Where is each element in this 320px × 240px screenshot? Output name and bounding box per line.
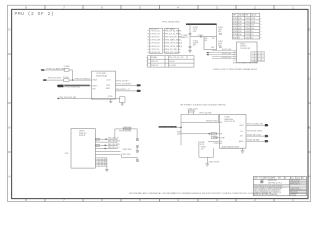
net arrow PP3V3_S5 input <box>41 69 45 71</box>
svg-text:PMU_RST_SMC_L: PMU_RST_SMC_L <box>165 52 180 54</box>
capacitor C7814 <box>193 41 198 47</box>
capacitor C7841 <box>212 137 218 139</box>
svg-text:4 GPIO4_WK: 4 GPIO4_WK <box>150 40 161 42</box>
capacitor C7817 <box>218 41 223 47</box>
net arrow BOOST_PG <box>206 54 209 56</box>
svg-text:BOOST_EN: BOOST_EN <box>222 53 232 55</box>
IC U7820 backlight driver <box>237 42 258 62</box>
svg-text:PP1V8_S0_PMU: PP1V8_S0_PMU <box>119 130 132 132</box>
wire FB pin <box>181 133 219 135</box>
svg-text:PP5V_S3_PMU_SW: PP5V_S3_PMU_SW <box>247 124 263 126</box>
svg-text:27K: 27K <box>201 149 205 151</box>
svg-text:SS: SS <box>220 141 222 143</box>
svg-text:6 GPIO6_B1: 6 GPIO6_B1 <box>150 46 160 48</box>
svg-text:A: A <box>8 175 10 179</box>
U7820 pin grid <box>251 52 265 62</box>
title block name text <box>268 179 282 184</box>
svg-text:REF: REF <box>233 15 236 17</box>
svg-text:S4: S4 <box>186 57 188 59</box>
junction dot row3 <box>105 145 107 146</box>
svg-text:4K7: 4K7 <box>239 28 242 30</box>
U7840 label <box>225 117 235 123</box>
U7700 pin names <box>92 79 110 91</box>
svg-text:PLACE CLOSE TO U7820 FOR BEST: PLACE CLOSE TO U7820 FOR BEST THERMAL RE… <box>213 68 257 71</box>
svg-text:AGND: AGND <box>239 140 244 143</box>
wire to boost input <box>190 36 204 38</box>
net name PMUVDDIO dark <box>64 85 90 87</box>
svg-text:BOOST_FB: BOOST_FB <box>222 57 231 59</box>
svg-text:B: B <box>308 126 310 130</box>
U7700 label <box>96 73 107 77</box>
svg-text:LDO2: LDO2 <box>106 85 110 87</box>
svg-text:CHECKED EE: CHECKED EE <box>290 182 299 184</box>
junction on FB wire <box>209 133 210 134</box>
svg-text:TLE WLCSP: TLE WLCSP <box>240 48 251 50</box>
wire SPI row6 long <box>95 154 120 156</box>
capacitor C7816 <box>218 27 223 33</box>
vertical tp bus <box>136 148 138 151</box>
title block header text <box>254 178 304 180</box>
svg-text:REF: REF <box>245 15 248 17</box>
table row wires between columns <box>147 31 180 53</box>
wire AGND out <box>246 140 265 142</box>
svg-text:NRST: NRST <box>106 88 110 90</box>
resistor R7821 <box>96 144 99 146</box>
svg-text:82.5K: 82.5K <box>200 144 205 146</box>
wire rail to boost top <box>216 24 218 36</box>
wire from flag <box>176 126 182 128</box>
net dot left <box>57 98 59 100</box>
net arrow BOOST_EN <box>206 52 209 54</box>
svg-text:C: C <box>8 77 11 81</box>
svg-text:PMU_GPIO5_SMC_A: PMU_GPIO5_SMC_A <box>165 42 182 45</box>
connector J7800 pin-name table right column <box>165 28 179 53</box>
svg-text:S0 ONLY: S0 ONLY <box>169 65 177 67</box>
wire vertical cap bus <box>189 24 191 50</box>
wire LDO2 out <box>115 84 136 86</box>
junction dot row4 <box>105 148 107 149</box>
svg-text:16V: 16V <box>193 45 197 47</box>
power rail wire (thick) <box>186 23 217 25</box>
wire NRST out <box>115 90 136 92</box>
svg-text:4K7: 4K7 <box>239 25 242 27</box>
svg-text:PM_PCIE_RST_PMU: PM_PCIE_RST_PMU <box>165 37 182 39</box>
svg-text:PMU_INT_SMC_L: PMU_INT_SMC_L <box>165 49 179 51</box>
svg-text:5 GPIO5_A1: 5 GPIO5_A1 <box>150 42 160 45</box>
net arrow VOUT <box>265 124 269 126</box>
svg-text:R7803: R7803 <box>233 25 238 27</box>
wire SPI row4 <box>95 148 117 150</box>
resistor R7810 label <box>177 131 182 135</box>
svg-text:2: 2 <box>254 5 256 9</box>
wire comp pin <box>213 137 219 139</box>
ground feedback <box>205 164 209 166</box>
ground below cap bus <box>188 51 192 53</box>
svg-text:SIZE: SIZE <box>254 178 257 180</box>
svg-text:PMU_SPI_CLK: PMU_SPI_CLK <box>108 138 120 140</box>
svg-text:ROM IF: ROM IF <box>79 135 86 137</box>
junction <box>72 79 73 80</box>
svg-text:3 GPIO3_PC: 3 GPIO3_PC <box>150 37 161 39</box>
inductor L7840 <box>188 110 194 112</box>
svg-text:051-9201: 051-9201 <box>290 194 296 196</box>
wire SPI row3 <box>95 144 117 146</box>
svg-text:PP3V3_S3_PMUVDD: PP3V3_S3_PMUVDD <box>75 78 91 80</box>
svg-text:6.3V: 6.3V <box>218 31 222 33</box>
svg-text:PP3V3_S3_PMU: PP3V3_S3_PMU <box>48 78 62 80</box>
svg-text:SW: SW <box>212 38 215 40</box>
svg-text:GND: GND <box>211 47 215 49</box>
border frame <box>8 5 311 201</box>
bundle bus to ground <box>106 158 108 170</box>
resistor R7811 <box>211 133 217 135</box>
wire <box>44 69 64 71</box>
svg-text:VDDIO: VDDIO <box>92 86 98 88</box>
svg-text:R7827 100K: R7827 100K <box>122 154 132 156</box>
svg-text:SIGNAL: SIGNAL <box>151 56 157 59</box>
net arrow AGND <box>265 140 269 142</box>
svg-text:PMU_SPI_MOSI: PMU_SPI_MOSI <box>108 141 121 143</box>
supervisor table left arrows <box>146 57 148 65</box>
svg-text:PMU_VDDCORE_SNS: PMU_VDDCORE_SNS <box>60 97 77 99</box>
svg-text:PP5V_S0SW_PMU: PP5V_S0SW_PMU <box>162 21 180 23</box>
svg-text:C7806: C7806 <box>245 34 250 36</box>
svg-text:100: 100 <box>239 34 242 36</box>
svg-text:BUCK 5V S3: BUCK 5V S3 <box>225 121 235 123</box>
DNP table text <box>233 14 256 40</box>
svg-text:9201: 9201 <box>297 178 301 180</box>
svg-text:0: 0 <box>239 37 240 39</box>
wire SPI row1 <box>95 138 117 140</box>
wire SW <box>246 135 265 137</box>
tick to U7700 <box>92 97 94 100</box>
wire AGND run <box>221 148 243 151</box>
bottom loop wire <box>122 155 138 160</box>
U7820 left pin numbers <box>234 51 236 62</box>
supervisor signal table <box>148 56 195 67</box>
svg-text:SHEET 9: SHEET 9 <box>181 37 188 39</box>
svg-text:VDDA: VDDA <box>92 79 97 82</box>
ROM pin bundle <box>95 158 107 166</box>
junction <box>180 127 181 128</box>
svg-text:C7802: C7802 <box>245 21 250 23</box>
wire corner to VIN <box>218 114 219 122</box>
svg-text:SPI0: SPI0 <box>65 153 69 155</box>
wire SPI row2 <box>95 141 117 143</box>
svg-text:C7842 22PF: C7842 22PF <box>213 143 222 145</box>
LDO U7700 <box>92 71 116 99</box>
wire <box>46 79 63 81</box>
table pin labels <box>150 28 183 54</box>
svg-text:C7805: C7805 <box>245 31 250 33</box>
U7820 label <box>240 43 251 49</box>
svg-text:PMU_SPI_CS_L: PMU_SPI_CS_L <box>108 147 120 149</box>
svg-text:PMU_GPIO6_SMC_B: PMU_GPIO6_SMC_B <box>165 46 182 48</box>
svg-text:2 GPIO2_S3: 2 GPIO2_S3 <box>150 33 160 35</box>
wire SPI row5 long <box>95 151 120 153</box>
svg-text:A1: A1 <box>234 51 236 54</box>
svg-text:4: 4 <box>177 5 179 9</box>
svg-text:PP5V7_LCDBKLT_SW_CONN: PP5V7_LCDBKLT_SW_CONN <box>233 62 258 64</box>
svg-text:A: A <box>308 175 310 179</box>
svg-text:VALUE: VALUE <box>239 14 244 17</box>
wire into U7700 <box>64 85 92 87</box>
svg-text:051: 051 <box>291 178 294 180</box>
testpoint TP7803 <box>136 150 138 152</box>
wire to U7700 VDDA <box>69 79 92 81</box>
svg-text:C7803: C7803 <box>245 25 250 27</box>
svg-text:R7802: R7802 <box>233 21 238 23</box>
svg-text:PP3V3_S0SW_MLB: PP3V3_S0SW_MLB <box>65 87 81 89</box>
svg-text:FL7800: FL7800 <box>64 66 70 68</box>
inductor leads <box>189 112 194 114</box>
svg-text:R7843: R7843 <box>201 147 206 149</box>
svg-text:8: 8 <box>25 5 27 9</box>
svg-text:PROPRIETARY AND CONFIDENTIAL.: PROPRIETARY AND CONFIDENTIAL. THE INFORM… <box>129 192 271 195</box>
svg-text:PM_SLP_S4_L PU: PM_SLP_S4_L PU <box>169 57 184 59</box>
svg-text:VALUE: VALUE <box>251 14 256 17</box>
testpoint TP7802 <box>136 145 138 147</box>
junction dot row1 <box>105 139 107 140</box>
svg-text:APPLE INC.: APPLE INC. <box>268 179 277 182</box>
svg-text:REV: REV <box>278 178 281 180</box>
svg-text:PP1V8_S0_PMU: PP1V8_S0_PMU <box>116 80 129 82</box>
title block frame <box>253 177 306 196</box>
svg-text:PMU_SPI_MISO: PMU_SPI_MISO <box>108 144 121 146</box>
svg-text:VOUT: VOUT <box>240 125 244 127</box>
ground below U7840 <box>242 147 244 150</box>
svg-text:PMU_WAKE_SMC_L: PMU_WAKE_SMC_L <box>165 39 181 42</box>
DNP table right stubs <box>260 18 262 37</box>
svg-text:R7807: R7807 <box>233 37 238 39</box>
buck regulator U7840 <box>219 114 246 148</box>
svg-text:7: 7 <box>63 5 65 9</box>
svg-text:VIN: VIN <box>205 38 208 40</box>
bundle net labels <box>222 49 232 59</box>
svg-text:PM_SLP_S4_PMU_L: PM_SLP_S4_PMU_L <box>165 30 181 32</box>
pullup rail top <box>115 129 137 140</box>
svg-text:C7804: C7804 <box>245 28 250 30</box>
DNP stuffing table top-right <box>232 13 259 39</box>
testpoint TP7804 <box>136 160 138 162</box>
svg-text:PM_PGOOD_P5VS3: PM_PGOOD_P5VS3 <box>247 131 262 133</box>
svg-text:PWR ON: PWR ON <box>151 65 159 67</box>
svg-text:7 GPIO7_IN: 7 GPIO7_IN <box>150 49 160 51</box>
svg-text:PGND_P5VS3: PGND_P5VS3 <box>209 162 220 164</box>
svg-text:PMU (2 OF 2): PMU (2 OF 2) <box>15 11 55 17</box>
svg-text:1 GPIO1_S4: 1 GPIO1_S4 <box>150 30 160 32</box>
boost converter U7810 <box>204 37 217 50</box>
svg-text:PMU_RESET_L_R: PMU_RESET_L_R <box>116 89 130 91</box>
svg-text:COMP: COMP <box>220 137 225 139</box>
vertical bus <box>180 114 182 145</box>
U7800 label <box>79 131 87 137</box>
feedback divider R7843 <box>201 147 206 151</box>
svg-text:3: 3 <box>216 5 218 9</box>
svg-text:PP5V_S3_PMU: PP5V_S3_PMU <box>200 113 213 115</box>
testpoint TP7801 <box>136 139 138 141</box>
svg-text:P5VS3_FB_SNS: P5VS3_FB_SNS <box>247 140 259 142</box>
svg-text:PP1V2_S0_PMURTC: PP1V2_S0_PMURTC <box>116 84 132 86</box>
feedback loop wires <box>199 142 213 164</box>
svg-text:P5VS3_SW_L7840: P5VS3_SW_L7840 <box>247 134 261 136</box>
svg-text:5: 5 <box>139 5 141 9</box>
svg-text:R7826 100K: R7826 100K <box>123 149 133 151</box>
net arrow PP3V3_S3 input <box>43 79 47 81</box>
ground below U7700 <box>110 99 112 102</box>
svg-text:B: B <box>8 126 10 130</box>
svg-text:C7801: C7801 <box>245 18 250 20</box>
svg-text:03: 03 <box>302 178 304 180</box>
apple logo <box>260 179 263 183</box>
wire bottom sense <box>59 97 121 99</box>
svg-text:D: D <box>8 28 11 32</box>
svg-text:R7804: R7804 <box>233 28 238 30</box>
U7840 pin names <box>220 122 244 143</box>
svg-text:R7810: R7810 <box>177 131 182 133</box>
svg-text:Q7700: Q7700 <box>108 96 113 98</box>
svg-text:PP3V3_S0SW_PMU: PP3V3_S0SW_PMU <box>159 127 177 129</box>
net flag PP3V3_S0SW dark <box>159 126 176 128</box>
svg-text:AGND_SENSE_P5VS3: AGND_SENSE_P5VS3 <box>222 146 239 149</box>
resistor R7820 <box>96 138 99 140</box>
svg-text:2010-06-18: 2010-06-18 <box>290 192 297 194</box>
svg-text:VSS: VSS <box>92 88 95 90</box>
svg-text:PG: PG <box>241 131 244 133</box>
svg-text:PM_SLP_S3_PMU_L: PM_SLP_S3_PMU_L <box>165 33 181 35</box>
svg-text:TITLE: PMU (2 OF 2) 051-9201: TITLE: PMU (2 OF 2) 051-9201 K90I MLB <box>254 186 282 188</box>
title block right cells text <box>290 179 301 197</box>
svg-text:GPIO ST: GPIO ST <box>151 61 158 63</box>
capacitor C7813 <box>193 27 198 33</box>
svg-text:R7805: R7805 <box>233 31 238 33</box>
feedback divider R7842 <box>200 142 205 146</box>
svg-text:1: 1 <box>292 5 294 9</box>
svg-text:D1: D1 <box>234 58 236 60</box>
svg-text:8 GPIO8_RS: 8 GPIO8_RS <box>150 52 161 54</box>
svg-text:100: 100 <box>239 31 242 33</box>
svg-text:R7842: R7842 <box>200 142 205 144</box>
svg-text:S0+S3: S0+S3 <box>169 61 174 63</box>
svg-text:MLB PMU (2 OF 2): MLB PMU (2 OF 2) <box>268 182 282 184</box>
svg-text:EN: EN <box>205 40 207 42</box>
svg-text:SW: SW <box>240 136 243 138</box>
svg-text:R7801: R7801 <box>233 18 238 20</box>
wire bundle boost to U7820 <box>209 51 237 59</box>
wire output rail <box>181 113 218 115</box>
svg-text:R7806: R7806 <box>233 34 238 36</box>
net arrow out <box>137 84 141 86</box>
svg-text:C1: C1 <box>234 56 236 58</box>
svg-text:C7807: C7807 <box>245 37 250 39</box>
connector J7800 pin-name table left column <box>149 28 163 53</box>
svg-text:6.3V: 6.3V <box>193 31 197 33</box>
ground AGND <box>241 151 245 153</box>
IO expander U7800 <box>71 129 95 169</box>
wire EN pin <box>181 121 219 123</box>
svg-text:PM_EN_P5VS3: PM_EN_P5VS3 <box>206 121 217 123</box>
svg-text:DOCUMENT NUMBER: DOCUMENT NUMBER <box>260 178 276 180</box>
svg-text:338S1039-A4: 338S1039-A4 <box>96 74 107 77</box>
wire VOUT <box>246 124 265 126</box>
svg-text:LDO1: LDO1 <box>107 80 111 82</box>
wire ss pin <box>208 141 219 143</box>
svg-text:B1: B1 <box>234 54 236 56</box>
svg-text:FB: FB <box>220 133 222 135</box>
ground bundle <box>105 169 109 171</box>
svg-text:6.3V: 6.3V <box>218 45 222 47</box>
svg-text:THE POWER IC IS PLACED ON BOTT: THE POWER IC IS PLACED ON BOTTOM SIDE. K… <box>180 104 226 107</box>
wire <box>69 69 73 71</box>
legal text block <box>254 187 282 196</box>
net arrow out <box>137 90 141 92</box>
net arrow SW <box>265 135 269 137</box>
net arrow PP3V3 PMUVDDIO (dark) <box>57 85 64 88</box>
svg-text:EN: EN <box>220 122 222 124</box>
wire merge vertical <box>72 70 74 80</box>
supervisor table text <box>151 56 188 67</box>
svg-text:6: 6 <box>101 5 103 9</box>
U7810 pin text <box>205 38 215 49</box>
svg-text:BOOST_SW: BOOST_SW <box>222 49 232 51</box>
